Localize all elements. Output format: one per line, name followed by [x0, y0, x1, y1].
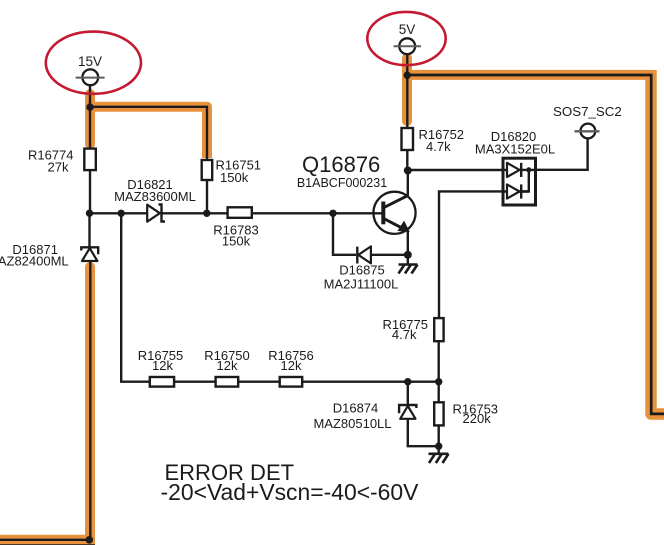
diode D16821 (zener): [114, 177, 196, 222]
wire R16756 to R16753 node: [302, 381, 438, 383]
resistor R16756: [268, 348, 314, 387]
terminal SOS7_SC2: [553, 104, 622, 139]
svg-text:MAZ82400ML: MAZ82400ML: [0, 254, 69, 269]
svg-text:B1ABCF000231: B1ABCF000231: [297, 176, 387, 190]
ground at emitter: [399, 255, 418, 274]
wire R16755 to R16750: [174, 381, 216, 383]
wire R16751 bottom to rail: [206, 180, 208, 215]
wire node rail y=213: [90, 212, 228, 214]
resistor R16750: [204, 348, 250, 387]
wire second bottom-left center line: [0, 544, 95, 545]
wire R16775 bottom to node: [438, 341, 440, 383]
resistor R16774: [28, 147, 96, 174]
node R16753 bottom: [435, 443, 442, 450]
resistor R16775: [382, 317, 443, 342]
wire D16875 anode to emitter node: [371, 254, 408, 256]
svg-text:MA2J11100L: MA2J11100L: [324, 276, 399, 291]
wire collector node down to transistor: [407, 171, 409, 196]
svg-text:MAZ80510LL: MAZ80510LL: [313, 416, 391, 431]
node collector: [404, 167, 412, 175]
wire D16820 cathodes to SOS7_SC2: [535, 139, 587, 170]
diode D16871 (zener): [0, 242, 98, 269]
svg-text:MAZ83600ML: MAZ83600ML: [114, 189, 196, 204]
wire bottom-left highlighted horizontal (orange): [0, 535, 95, 545]
resistor R16783: [213, 207, 259, 248]
node below 5V: [404, 72, 411, 79]
wire node B down to 12k row: [121, 213, 150, 381]
svg-text:12k: 12k: [217, 358, 238, 373]
wire R16783 to base node: [252, 212, 383, 214]
node bottom-left: [86, 536, 94, 544]
wire R16752 bottom to collector node: [406, 150, 408, 172]
diode D16875: [324, 246, 399, 291]
wire 15V node to R16751 top: [89, 107, 207, 160]
wire R16753 bottom to ground node: [438, 425, 440, 447]
node 12k row D16874: [404, 378, 411, 385]
resistor R16752: [402, 127, 465, 154]
svg-text:150k: 150k: [222, 233, 251, 248]
wire R16774 bottom to node A: [89, 170, 91, 216]
red highlight ellipse 15V: [46, 32, 141, 94]
node under R16751: [203, 210, 210, 217]
svg-text:220k: 220k: [463, 411, 492, 426]
wire base node down to D16875: [333, 213, 356, 255]
ground at R16753: [429, 446, 449, 463]
wire node A down to D16871: [88, 213, 90, 249]
svg-text:150k: 150k: [220, 170, 249, 185]
node 12k row R16753: [435, 378, 442, 385]
wire D16874 branch down and right: [408, 382, 439, 447]
svg-text:5V: 5V: [399, 22, 416, 37]
wire 5V stub down through R16752 top: [406, 54, 408, 129]
wire 5V highlighted vertical (orange): [402, 58, 412, 121]
svg-text:12k: 12k: [152, 358, 173, 373]
power port 15V: [76, 54, 105, 85]
wire bottom-left horizontal: [0, 539, 90, 541]
svg-text:12k: 12k: [281, 358, 302, 373]
node A rail left: [86, 210, 93, 217]
power port 5V: [394, 22, 422, 54]
wire second bottom-left highlighted horizontal (orange): [0, 540, 95, 545]
node emitter: [404, 251, 412, 259]
svg-text:27k: 27k: [48, 160, 69, 175]
node B rail 12k branch: [118, 210, 125, 217]
resistor R16755: [138, 348, 184, 387]
red highlight ellipse 5V: [367, 12, 445, 65]
wire 5V horizontal center line: [407, 75, 664, 414]
transistor Q16876: [297, 152, 416, 234]
svg-text:Q16876: Q16876: [302, 152, 380, 177]
wire 15V highlighted vertical (orange): [85, 94, 95, 144]
resistor R16753: [434, 401, 498, 426]
svg-text:SOS7_SC2: SOS7_SC2: [553, 104, 622, 119]
svg-text:4.7k: 4.7k: [392, 327, 417, 342]
resistor R16751: [202, 157, 261, 185]
svg-text:D16874: D16874: [333, 401, 379, 416]
wire R16750 to R16756: [238, 381, 280, 383]
svg-text:15V: 15V: [78, 54, 102, 69]
wire 15V stub to node: [89, 86, 91, 149]
diode D16874 (zener): [313, 401, 416, 432]
dual diode package D16820: [475, 129, 555, 205]
node base: [329, 210, 336, 217]
wire node down to R16753: [438, 382, 440, 403]
svg-text:MA3X152E0L: MA3X152E0L: [475, 141, 555, 156]
wire collector node to D16820 top diode: [408, 169, 503, 171]
svg-text:4.7k: 4.7k: [426, 139, 451, 154]
wire emitter down to emitter node: [407, 231, 409, 255]
wire D16871 to bottom rail: [89, 261, 91, 540]
node below 15V: [86, 103, 93, 110]
wire D16871 cathode rail highlighted vertical (orange): [85, 267, 95, 541]
wire 15V highlighted horizontal to R16751 (orange): [86, 107, 207, 158]
svg-text:-20<Vad+Vscn=-40<-60V: -20<Vad+Vscn=-40<-60V: [161, 479, 420, 505]
wire 5V highlighted horizontal to right edge (orange): [407, 70, 651, 80]
wire D16820 bottom anode to R16775: [439, 191, 503, 318]
